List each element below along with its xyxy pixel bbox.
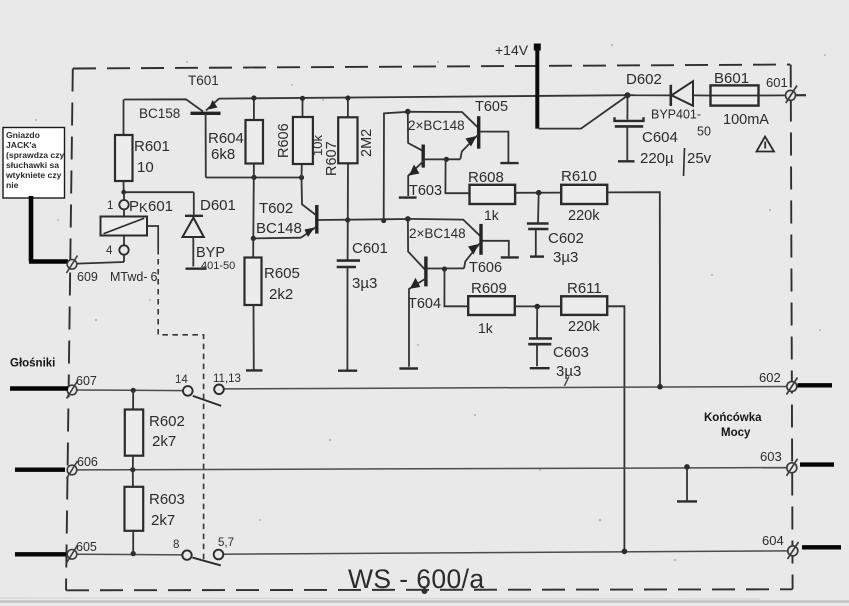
switch contact 8 xyxy=(173,539,192,560)
svg-text:606: 606 xyxy=(77,455,98,469)
svg-text:R606: R606 xyxy=(276,123,292,158)
transistor T604 xyxy=(399,257,441,369)
svg-text:T604: T604 xyxy=(408,296,441,312)
capacitor C603 3µ3 xyxy=(528,307,589,387)
wire: node row under R604/R606 xyxy=(206,175,304,180)
terminal 607 xyxy=(67,374,97,399)
svg-text:C601: C601 xyxy=(352,240,388,257)
resistor R611 220k xyxy=(561,280,607,335)
wire: R609 to R611 with C603 tap xyxy=(515,304,561,310)
dual transistor pair 1 outline 2×BC148 xyxy=(408,112,478,151)
terminal 604 xyxy=(762,533,799,559)
transistor T603 xyxy=(399,145,442,200)
transistor T602 BC148 xyxy=(256,178,317,238)
resistor R603 2k7 xyxy=(125,470,185,554)
svg-text:C603: C603 xyxy=(553,344,589,361)
terminal 602 xyxy=(759,370,798,395)
svg-text:2k7: 2k7 xyxy=(152,433,176,450)
terminal 601 xyxy=(766,75,806,103)
relay coil Pk601 xyxy=(101,198,174,236)
svg-text:+14V: +14V xyxy=(495,42,529,58)
wire: external speaker lead 605 xyxy=(15,552,66,556)
svg-text:R603: R603 xyxy=(149,491,185,508)
wire: speaker line 605 to switch xyxy=(77,551,182,556)
wire: node down to R609 xyxy=(444,269,468,306)
svg-text:25v: 25v xyxy=(687,150,712,167)
svg-text:607: 607 xyxy=(76,374,97,388)
resistor R608 1k xyxy=(468,169,515,223)
svg-text:Końcówka: Końcówka xyxy=(704,412,762,424)
wire: R608 to R610 with C602 tap xyxy=(515,190,561,196)
wire: T605 emitter to T603 collector xyxy=(425,157,461,162)
svg-text:P: P xyxy=(129,198,139,215)
svg-text:R607: R607 xyxy=(324,141,340,176)
relay contact pin 1 xyxy=(107,192,129,212)
wire: fuse to terminal 601 xyxy=(759,94,786,96)
resistor R605 2k2 xyxy=(245,238,300,305)
switch lever bottom xyxy=(193,558,221,566)
node: D602 anode junction xyxy=(625,92,631,98)
svg-text:100mA: 100mA xyxy=(723,112,769,128)
svg-text:Mocy: Mocy xyxy=(721,427,751,439)
svg-text:wtykniete czy: wtykniete czy xyxy=(5,170,62,180)
svg-text:604: 604 xyxy=(762,533,784,548)
svg-text:R605: R605 xyxy=(264,265,300,282)
capacitor C601 3µ3 xyxy=(337,240,388,371)
svg-text:2k2: 2k2 xyxy=(269,286,293,303)
wire: T606 emitter to T604 collector xyxy=(427,266,464,271)
diode D601 BYP401-50 xyxy=(183,192,236,272)
svg-text:601: 601 xyxy=(148,198,173,215)
svg-text:T605: T605 xyxy=(475,99,508,115)
wire: external speaker lead 606 xyxy=(15,468,65,472)
wire: external lead 604 xyxy=(802,545,841,549)
wire: external speaker lead 607 xyxy=(10,386,68,390)
resistor R607 2M2 xyxy=(324,95,375,176)
node: +14V entry with square tap xyxy=(495,42,628,129)
wire: R610 right down to 602 line xyxy=(607,192,660,386)
resistor R606 xyxy=(276,96,325,178)
svg-text:R608: R608 xyxy=(468,169,504,186)
svg-text:1: 1 xyxy=(107,200,113,212)
dashed boundary frame of module WS-600/a xyxy=(66,65,793,591)
svg-text:R609: R609 xyxy=(471,280,507,297)
svg-text:BYP: BYP xyxy=(196,245,225,261)
svg-text:3µ3: 3µ3 xyxy=(553,249,578,266)
svg-text:6k8: 6k8 xyxy=(211,146,235,163)
svg-text:BC148: BC148 xyxy=(256,220,302,237)
svg-text:1k: 1k xyxy=(484,207,500,223)
wire: speaker line from switch to terminal 604 xyxy=(223,549,788,555)
svg-text:T601: T601 xyxy=(188,73,219,88)
wire: node to D602 xyxy=(628,94,671,96)
wire: R601 bottom to D601 xyxy=(121,190,194,195)
wire: R605 bottom stub with end bar xyxy=(246,305,263,370)
svg-text:C602: C602 xyxy=(548,230,584,247)
svg-text:3µ3: 3µ3 xyxy=(352,275,377,292)
svg-text:BYP401-: BYP401- xyxy=(651,108,701,122)
relay contact pin 4 xyxy=(106,236,129,263)
wire: D602 to fuse B601 xyxy=(693,94,711,96)
svg-text:2×BC148: 2×BC148 xyxy=(409,226,466,241)
transistor T601 BC158 xyxy=(124,73,221,121)
svg-text:D601: D601 xyxy=(200,197,236,214)
svg-text:11,13: 11,13 xyxy=(213,373,241,385)
resistor R604 6k8 xyxy=(208,95,263,163)
svg-text:10k: 10k xyxy=(310,135,325,156)
mechanical link from relay to switches (dashed) xyxy=(147,226,204,562)
svg-text:T606: T606 xyxy=(469,260,502,276)
wire: branch up from T602 collector to pair 1 input xyxy=(384,109,411,221)
resistor R610 220k xyxy=(561,168,607,224)
svg-text:D602: D602 xyxy=(626,71,662,88)
WS-600/a module title xyxy=(348,564,485,594)
svg-text:609: 609 xyxy=(77,270,98,284)
wire: R607 bottom through T602 collector node down to C601 xyxy=(345,163,350,260)
svg-text:220k: 220k xyxy=(568,319,600,335)
wire: thick lead from JACK note box to pin 609 xyxy=(29,196,68,262)
note box: Gniazdo JACK'a xyxy=(3,128,65,199)
junction on bottom border xyxy=(422,588,428,594)
wire: R611 right down across 602/603 lines to 604 line xyxy=(607,306,624,551)
svg-text:R611: R611 xyxy=(567,280,602,297)
terminal 603 xyxy=(760,449,798,476)
terminal 606 xyxy=(67,455,98,479)
svg-text:Gniazdo: Gniazdo xyxy=(6,130,40,140)
svg-text:WS - 600/a: WS - 600/a xyxy=(348,564,485,594)
terminal 609 xyxy=(67,256,98,285)
capacitor C604 220µ/25V xyxy=(615,95,712,176)
svg-text:R601: R601 xyxy=(134,138,170,155)
svg-text:220µ: 220µ xyxy=(640,150,674,167)
svg-text:słuchawki sa: słuchawki sa xyxy=(6,160,59,170)
wire: stub with end bar on 603 line xyxy=(677,467,697,502)
svg-text:Głośniki: Głośniki xyxy=(10,358,55,370)
svg-text:R602: R602 xyxy=(149,413,185,430)
svg-text:R604: R604 xyxy=(208,130,244,147)
svg-text:602: 602 xyxy=(759,370,781,385)
wire: speaker line from switch to terminal 602 xyxy=(224,384,787,390)
svg-text:601: 601 xyxy=(766,75,788,90)
svg-text:T602: T602 xyxy=(259,200,293,217)
svg-text:K: K xyxy=(139,200,148,215)
svg-text:C604: C604 xyxy=(642,129,678,146)
dual transistor pair 2 outline 2×BC148 xyxy=(405,216,480,269)
svg-text:nie: nie xyxy=(6,180,19,190)
svg-text:4: 4 xyxy=(106,245,113,257)
switch contact 5,7 xyxy=(214,537,234,559)
wire: speaker line 606 to terminal 603 xyxy=(77,464,787,472)
warning triangle symbol xyxy=(757,137,775,152)
svg-text:603: 603 xyxy=(760,449,782,464)
transistor T606 xyxy=(464,224,519,276)
wire: R604 bottom through node row to T602 emitter node xyxy=(252,164,255,239)
wire: +14V supply rail to D602 node xyxy=(219,95,628,98)
svg-text:5,7: 5,7 xyxy=(218,537,234,549)
svg-text:2k7: 2k7 xyxy=(151,512,175,529)
svg-text:R610: R610 xyxy=(561,168,597,185)
fuse B601 100mA xyxy=(711,70,770,128)
svg-text:8: 8 xyxy=(173,539,179,551)
switch lever top xyxy=(193,396,221,406)
wire: T602 collector line to pair boxes xyxy=(319,218,409,223)
resistor R601 10 xyxy=(115,100,170,193)
transistor T605 xyxy=(460,99,518,163)
switch contact 11,13 xyxy=(213,373,241,394)
svg-text:50: 50 xyxy=(697,125,711,139)
wire: T601 collector down to node row xyxy=(205,114,207,178)
wire: external lead 602 xyxy=(798,383,833,387)
wire: external lead 603 xyxy=(800,462,834,466)
svg-text:JACK'a: JACK'a xyxy=(6,140,36,150)
capacitor C602 3µ3 xyxy=(527,193,584,266)
svg-text:401-50: 401-50 xyxy=(201,260,235,272)
svg-text:B601: B601 xyxy=(714,70,749,87)
svg-text:(sprawdza czy: (sprawdza czy xyxy=(6,150,64,160)
svg-text:MTwd-6: MTwd-6 xyxy=(110,270,158,284)
wire: pin 609 to relay pin 4 xyxy=(77,262,124,264)
terminal 605 xyxy=(67,540,97,563)
svg-text:2M2: 2M2 xyxy=(359,129,375,157)
svg-text:BC158: BC158 xyxy=(139,106,180,121)
diode D602 BYP401-50 xyxy=(626,71,711,139)
svg-text:1k: 1k xyxy=(478,320,494,336)
wire: T602 emitter to R605 node xyxy=(251,236,301,241)
wire: node down to R608 xyxy=(445,159,469,193)
resistor R609 1k xyxy=(468,280,515,336)
label Końcówka Mocy (power amp) xyxy=(704,412,762,439)
svg-text:2×BC148: 2×BC148 xyxy=(408,118,465,133)
svg-text:605: 605 xyxy=(76,540,97,554)
wire: speaker line 607 to switch xyxy=(77,388,183,393)
svg-text:220k: 220k xyxy=(568,208,600,224)
resistor R602 2k7 xyxy=(125,390,185,469)
svg-text:T603: T603 xyxy=(409,183,442,199)
switch contact 14 xyxy=(175,374,193,396)
svg-text:10: 10 xyxy=(137,159,154,176)
svg-text:14: 14 xyxy=(175,374,188,386)
